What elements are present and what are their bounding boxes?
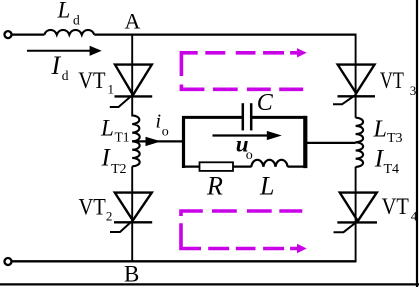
load loop top edge right part (252, 116, 307, 119)
dashed current path bottom: bottom run dashes (208, 247, 297, 251)
capacitor C plates (242, 103, 245, 130)
inductor LT4 (356, 142, 364, 167)
svg-text:I: I (51, 51, 62, 80)
svg-text:B: B (124, 261, 139, 286)
wire right branch lower (355, 167, 357, 262)
wire left branch lower (131, 166, 133, 262)
arrow Id (27, 50, 91, 52)
wire load to right branch (305, 142, 356, 144)
inductor LT3 (356, 118, 364, 143)
dashed current path bottom: left vertical and corner dash (181, 223, 201, 248)
wire io from LT junction to load (132, 140, 183, 142)
arrowhead io (146, 137, 162, 146)
inductor LT2 (132, 141, 140, 166)
load loop bottom edge segment 3 (288, 166, 308, 168)
dashed current path top: top run dashes (205, 51, 297, 55)
svg-text:VT: VT (78, 68, 105, 93)
load loop bottom edge segment 1 (182, 166, 201, 168)
svg-text:i: i (156, 111, 162, 133)
svg-text:d: d (73, 13, 80, 28)
svg-text:o: o (162, 125, 169, 140)
thyristor VT2 (115, 193, 152, 221)
svg-text:VT: VT (382, 194, 409, 219)
wire Ld to node A to top-right corner (94, 33, 356, 35)
wire right branch upper (355, 34, 357, 118)
dashed current path top: lower-left corner dash (181, 85, 204, 90)
svg-text:VT: VT (79, 195, 106, 220)
dashed current path bottom: top-left corner dash (181, 211, 203, 216)
thyristor VT1 (115, 65, 152, 95)
dashed current path bottom: top run dashes (212, 209, 302, 213)
svg-text:L: L (373, 116, 387, 142)
resistor R (200, 162, 234, 171)
terminal bottom-left (5, 258, 12, 265)
load loop top edge left part (182, 116, 242, 119)
svg-text:C: C (257, 90, 274, 116)
load loop bottom edge segment 2 (233, 166, 252, 168)
load loop right edge (303, 116, 307, 168)
svg-text:T1: T1 (115, 129, 130, 144)
svg-text:VT: VT (380, 68, 404, 93)
dashed current path top: bottom run dashes (213, 88, 303, 92)
dashed current path top: arrowhead (297, 48, 307, 57)
svg-text:2: 2 (106, 209, 113, 224)
load loop left edge (182, 116, 185, 168)
terminal top-left (5, 31, 12, 38)
svg-text:A: A (125, 9, 141, 34)
svg-text:3: 3 (410, 83, 417, 98)
svg-text:L: L (57, 0, 71, 22)
inductor LT1 (132, 115, 139, 141)
thyristor VT4 (340, 193, 377, 221)
svg-text:T3: T3 (387, 131, 403, 146)
svg-text:I: I (101, 145, 112, 172)
svg-text:d: d (62, 68, 69, 83)
svg-text:4: 4 (411, 208, 418, 223)
frame bottom border (0, 283, 419, 285)
bottom wire (12, 260, 357, 262)
wire terminal to Ld (12, 33, 45, 35)
thyristor VT3 (338, 65, 375, 94)
dashed current path bottom: arrowhead (297, 244, 307, 253)
dashed current path top: corner and left vertical dash (181, 53, 197, 76)
svg-text:L: L (100, 116, 114, 141)
svg-text:1: 1 (108, 82, 115, 97)
wire left branch upper (131, 34, 133, 117)
arrow uo (213, 134, 269, 136)
inductor L (251, 160, 287, 167)
inductor Ld (44, 30, 94, 35)
svg-text:o: o (246, 148, 253, 163)
svg-text:T4: T4 (384, 162, 400, 177)
svg-text:R: R (206, 172, 223, 201)
svg-text:T2: T2 (111, 162, 127, 177)
frame right border (416, 0, 418, 287)
svg-text:L: L (259, 172, 274, 201)
